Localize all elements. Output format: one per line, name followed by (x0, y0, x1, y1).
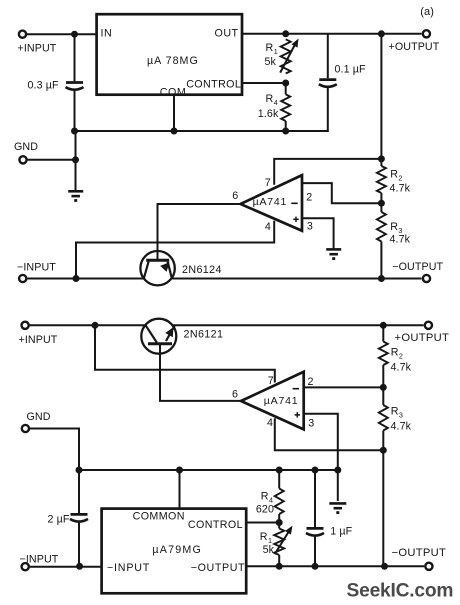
junction common rail left (bottom) (76, 467, 83, 474)
capacitor C1 0.3uF (28, 34, 84, 131)
junction OUT/R1 (282, 30, 289, 37)
junction R4 top (bottom) (276, 467, 283, 474)
svg-text:+INPUT: +INPUT (19, 334, 58, 346)
svg-text:−OUTPUT: −OUTPUT (392, 547, 447, 559)
svg-text:4.7k: 4.7k (390, 182, 411, 194)
wire pin 6 to Q1 base (158, 204, 241, 260)
wire -INPUT to box (29, 566, 102, 568)
wire +INPUT to Q2 (29, 324, 146, 326)
junction +INPUT/0.3uF (71, 31, 78, 38)
transistor Q2 2N6121 (141, 319, 223, 354)
wire +INPUT to IN (26, 33, 96, 35)
junction common rail left (71, 128, 78, 135)
wire OUT rail (242, 33, 422, 35)
svg-text:−OUTPUT: −OUTPUT (392, 261, 443, 273)
capacitor C2 0.1uF (286, 34, 366, 131)
svg-text:1.6k: 1.6k (258, 108, 279, 120)
junction common/pin3 (334, 467, 341, 474)
wire pin 2 (top opamp) (302, 183, 381, 203)
wire right rail (bottom) (382, 450, 384, 566)
wire pin 4 (top opamp) (76, 221, 274, 279)
junction rail/R2 (top) (378, 155, 385, 162)
svg-text:CONTROL: CONTROL (186, 79, 241, 91)
potentiometer R1 5k (top) (265, 39, 299, 74)
potentiometer R1 5k (bottom) (260, 523, 293, 567)
capacitor C4 1uF (306, 470, 353, 566)
wire Q2 to +OUTPUT (172, 324, 423, 326)
svg-text:OUT: OUT (215, 28, 239, 40)
svg-text:2N6124: 2N6124 (182, 264, 222, 276)
svg-text:6: 6 (232, 389, 238, 401)
svg-text:3: 3 (307, 221, 313, 233)
terminal +INPUT (top) (18, 31, 57, 55)
wire pin 3 (bottom opamp) (304, 414, 338, 470)
watermark SeekIC.com (347, 580, 454, 601)
svg-text:7: 7 (268, 375, 274, 387)
resistor R4 620 (256, 470, 284, 523)
svg-text:GND: GND (14, 141, 38, 153)
svg-text:+OUTPUT: +OUTPUT (389, 41, 440, 53)
junction COM lead (171, 128, 178, 135)
svg-text:−INPUT: −INPUT (107, 562, 150, 574)
junction pin4/-input (73, 275, 80, 282)
terminal -INPUT (bottom) (20, 553, 59, 570)
terminal +INPUT (bottom) (19, 322, 58, 346)
svg-text:620: 620 (256, 503, 274, 515)
resistor R3 4.7k (bottom) (379, 387, 412, 450)
terminal +OUTPUT (top) (389, 30, 440, 53)
svg-text:+INPUT: +INPUT (18, 42, 57, 54)
resistor R2 4.7k (top) (377, 159, 411, 203)
svg-text:µA79MG: µA79MG (152, 544, 202, 556)
junction GND stub (72, 156, 79, 163)
svg-text:3: 3 (308, 418, 314, 430)
wire CONTROL (bottom) (246, 522, 279, 524)
junction 2uF/-input (76, 563, 83, 570)
junction R1/-output (276, 563, 283, 570)
op-amp U3 uA741 (bottom) (232, 372, 314, 430)
svg-text:7: 7 (265, 177, 271, 189)
svg-text:IN: IN (101, 27, 113, 39)
svg-text:5k: 5k (265, 56, 277, 68)
junction OUT/rail (378, 30, 385, 37)
ground G1 (68, 191, 83, 200)
junction R4 bottom (282, 128, 289, 135)
junction +INPUT/pin7 (92, 322, 99, 329)
svg-text:−INPUT: −INPUT (20, 553, 59, 565)
capacitor C3 2uF (48, 470, 89, 566)
svg-text:µA 78MG: µA 78MG (147, 55, 199, 67)
svg-text:4.7k: 4.7k (391, 420, 412, 432)
label (a) (420, 6, 434, 18)
svg-text:0.3 µF: 0.3 µF (28, 79, 59, 91)
ground G3 (329, 503, 346, 512)
wire GND stub (27, 159, 76, 161)
terminal GND (bottom) (22, 411, 51, 432)
wire GND drop (75, 131, 77, 191)
regulator U4 uA79MG (102, 509, 247, 594)
svg-text:−OUTPUT: −OUTPUT (191, 562, 245, 574)
terminal -OUTPUT (bottom) (392, 547, 447, 570)
wire pin 4 (bottom opamp) (275, 418, 384, 450)
resistor R4 1.6k (258, 83, 290, 131)
junction R1/R4 (top) (282, 80, 289, 87)
wire Q1 to -OUTPUT (172, 278, 421, 280)
terminal +OUTPUT (bottom) (395, 322, 450, 344)
wire CONTROL (top) (242, 82, 286, 84)
wire COMMON lead (179, 470, 181, 509)
regulator U1 uA78MG (97, 14, 242, 98)
svg-text:4.7k: 4.7k (391, 362, 412, 374)
svg-text:4.7k: 4.7k (390, 233, 411, 245)
svg-text:4: 4 (265, 221, 271, 233)
wire Q2 base to pin 6 (160, 344, 241, 401)
svg-text:SeekIC.com: SeekIC.com (347, 580, 454, 601)
wire common rail (bottom) (79, 469, 338, 471)
svg-text:6: 6 (232, 190, 238, 202)
svg-text:2N6121: 2N6121 (184, 329, 224, 341)
junction R4/R1 (bottom) (276, 519, 283, 526)
junction R3/pin4 (bottom) (380, 447, 387, 454)
svg-text:µA741: µA741 (253, 196, 288, 208)
junction R2/R3 (bottom) (380, 384, 387, 391)
wire pin 7 (bottom opamp) (95, 325, 275, 382)
wire pin 2 (bottom opamp) (304, 386, 384, 388)
wire right rail (top) (380, 34, 382, 159)
svg-text:1 µF: 1 µF (330, 525, 352, 537)
svg-text:GND: GND (27, 411, 51, 423)
junction rail/-output (top) (378, 275, 385, 282)
wire pin 7 (top opamp) (274, 159, 381, 185)
junction R2/R3 (top) (378, 200, 385, 207)
wire -OUTPUT row (246, 565, 424, 567)
resistor R2 4.7k (bottom) (379, 325, 412, 387)
junction rail/+output (bottom) (380, 322, 387, 329)
junction 1uF/-output (312, 563, 319, 570)
terminal -INPUT (top) (17, 261, 56, 282)
svg-text:(a): (a) (420, 6, 434, 18)
svg-text:0.1 µF: 0.1 µF (335, 63, 366, 75)
wire COM lead (173, 95, 175, 131)
wire -INPUT to Q1 (27, 278, 144, 280)
terminal GND (top) (14, 141, 38, 163)
transistor Q1 2N6124 (140, 251, 221, 285)
svg-text:2 µF: 2 µF (48, 514, 70, 526)
svg-text:µA741: µA741 (264, 395, 299, 407)
terminal -OUTPUT (top) (392, 261, 443, 282)
wire GND to common rail (29, 429, 79, 471)
svg-text:2: 2 (308, 376, 314, 388)
svg-text:2: 2 (306, 191, 312, 203)
wire common rail (75, 130, 286, 132)
junction 1uF top (312, 467, 319, 474)
junction rail/-output (bottom) (381, 563, 388, 570)
svg-text:4: 4 (267, 417, 273, 429)
resistor R3 4.7k (top) (377, 203, 411, 278)
svg-text:CONTROL: CONTROL (188, 519, 243, 531)
svg-text:−INPUT: −INPUT (17, 261, 56, 273)
ground G2 (pin 3) (326, 249, 341, 258)
svg-text:COMMON: COMMON (133, 510, 185, 522)
wire ground lead (bottom) (337, 470, 339, 501)
op-amp U2 uA741 (top) (232, 175, 313, 233)
wire pin 3 (top opamp) (302, 218, 334, 249)
junction common/COMMON lead (176, 467, 183, 474)
svg-text:+OUTPUT: +OUTPUT (395, 332, 450, 344)
svg-text:5k: 5k (263, 544, 275, 556)
